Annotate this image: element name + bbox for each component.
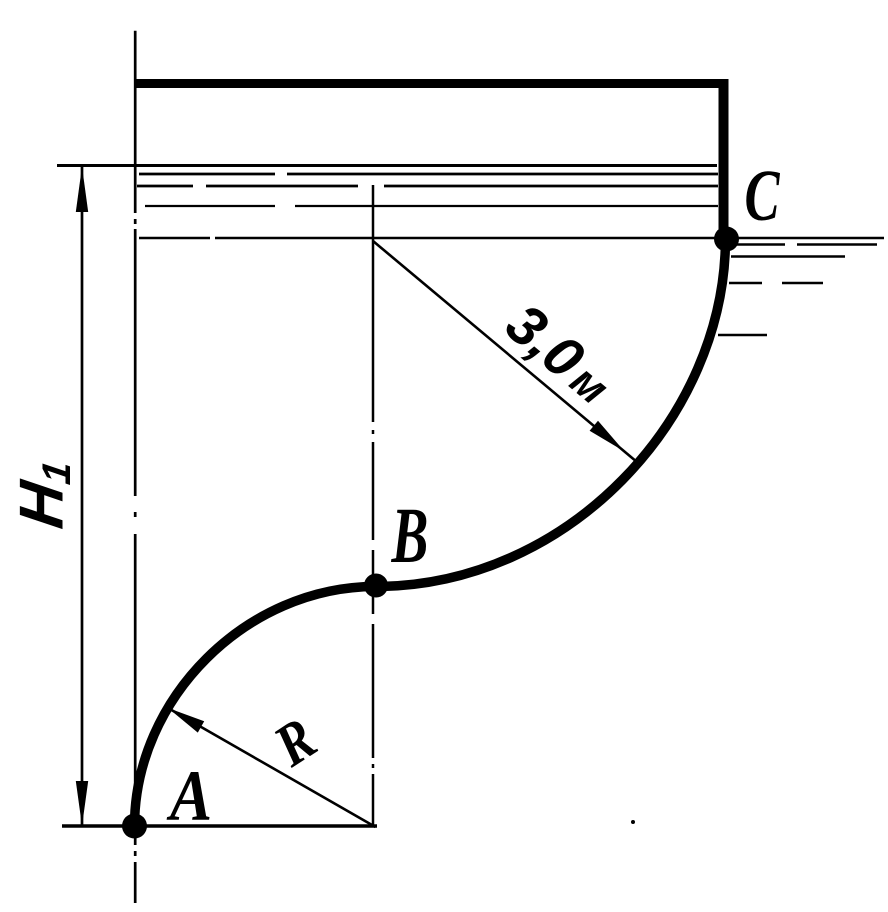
radius 3.0m arrowhead	[590, 421, 625, 452]
label 3,0 m (rotated 45deg)	[494, 292, 625, 417]
dimension H1 top arrowhead	[76, 167, 88, 213]
svg-text:B: B	[391, 491, 429, 579]
point B dot	[364, 574, 388, 598]
label A	[166, 756, 212, 836]
lower water level line through C (y=238)	[139, 237, 884, 240]
water hatch dash line 3	[137, 185, 718, 188]
stray ink speck	[631, 820, 635, 824]
label C	[744, 155, 780, 236]
water hatch right of wall, line 3	[729, 282, 823, 284]
top slab (thick horizontal line)	[135, 79, 728, 88]
point A dot	[122, 814, 147, 839]
base line through A (y=826)	[62, 824, 377, 827]
curved wall profile: arc C to B (R=3.0m) then arc B to A (R)	[135, 238, 726, 827]
label B	[391, 491, 429, 579]
water hatch right of wall, line 4	[718, 334, 767, 336]
svg-text:A: A	[166, 756, 212, 836]
right wall (thick vertical line down to C)	[719, 79, 729, 234]
label H1 (rotated)	[8, 455, 79, 533]
radius line R from centre of lower arc	[168, 708, 376, 827]
label R (rotated)	[262, 705, 328, 780]
centerline of left wall face (dash-dot vertical x=135)	[134, 31, 137, 903]
water hatch right of wall, line 1	[735, 243, 877, 246]
water surface line (upper level, solid)	[57, 164, 717, 167]
svg-text:C: C	[744, 155, 780, 236]
dimension H1 bottom arrowhead	[76, 781, 88, 826]
point C dot	[714, 227, 739, 252]
water hatch dash line 2	[139, 173, 718, 176]
radius line 3.0m from centre to arc	[373, 241, 637, 462]
water hatch dash line 4	[145, 205, 718, 207]
centerline through B (dash-dot vertical x=373)	[372, 185, 375, 826]
radius R arrowhead	[168, 708, 204, 733]
water hatch right of wall, line 2	[731, 255, 845, 258]
dimension H1: vertical dimension line x=82	[81, 167, 84, 826]
